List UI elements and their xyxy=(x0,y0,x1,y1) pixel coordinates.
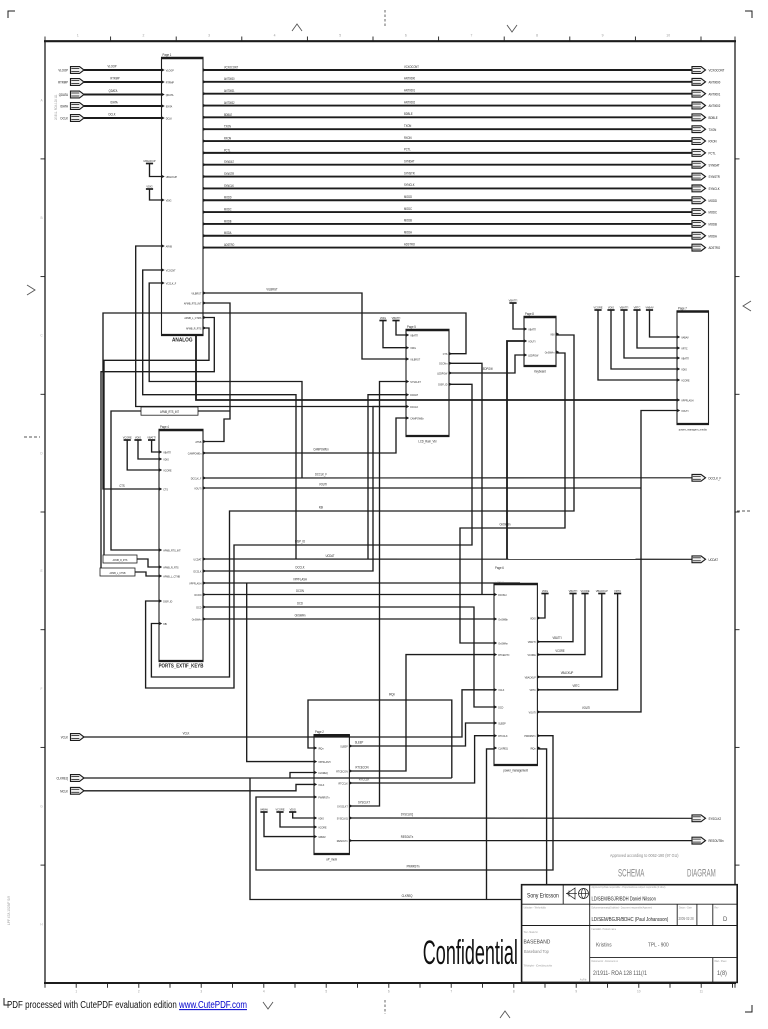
wire UCDAT out xyxy=(203,558,692,560)
wire VLOOP input xyxy=(84,69,162,71)
svg-text:10: 10 xyxy=(666,34,670,38)
svg-text:LD/SEM/BGJR/BDH Daniel Nilsson: LD/SEM/BGJR/BDH Daniel Nilsson xyxy=(592,896,657,903)
svg-text:KBI: KBI xyxy=(319,505,323,509)
svg-text:SYNCLK: SYNCLK xyxy=(224,183,234,187)
svg-text:DCD: DCD xyxy=(196,605,201,609)
svg-text:Page 2: Page 2 xyxy=(315,730,324,734)
power symbol P_VDIG_lcd xyxy=(379,316,386,321)
wire MODD bus line xyxy=(203,199,692,201)
wire VCXOCONT bus line xyxy=(203,69,692,71)
svg-text:5: 5 xyxy=(325,990,327,994)
svg-text:VCORE: VCORE xyxy=(580,589,589,593)
svg-text:UCDAT: UCDAT xyxy=(326,554,335,558)
svg-text:8: 8 xyxy=(513,990,515,994)
hierarchical block U2 uP_mem (Page 2) xyxy=(314,730,353,862)
svg-text:PWRRSTn: PWRRSTn xyxy=(318,795,330,799)
svg-text:DCCLK: DCCLK xyxy=(193,569,201,573)
svg-text:TXON: TXON xyxy=(709,127,717,131)
svg-text:Dokumentnr - Document no: Dokumentnr - Document no xyxy=(592,960,619,963)
svg-text:UBACKUP: UBACKUP xyxy=(143,159,155,163)
net label box AFMB_L_CTNB xyxy=(100,568,135,576)
net name SYSCLKT xyxy=(358,800,370,804)
wire VPPFLASH to uP xyxy=(247,583,314,762)
svg-text:VDIG: VDIG xyxy=(530,616,536,620)
hierarchical block U7 power_managem_media (Page 7) xyxy=(677,306,710,432)
svg-text:ArcFile: ArcFile xyxy=(580,978,587,981)
wire DCCLK_F out xyxy=(203,477,692,479)
svg-text:VABAV: VABAV xyxy=(260,807,268,811)
svg-text:MODD: MODD xyxy=(404,195,412,199)
svg-text:AFMB_RTS_INT: AFMB_RTS_INT xyxy=(160,410,179,414)
svg-text:Page 5: Page 5 xyxy=(407,325,416,329)
svg-text:TXON: TXON xyxy=(224,124,231,128)
svg-text:IDATA: IDATA xyxy=(110,100,117,104)
port connector VCLK xyxy=(61,734,84,741)
svg-text:DCD: DCD xyxy=(297,601,303,605)
svg-text:VILBRGT: VILBRGT xyxy=(266,287,277,291)
svg-text:6: 6 xyxy=(388,990,390,994)
svg-text:Titel - Made for: Titel - Made for xyxy=(524,931,539,934)
svg-text:VOUTI: VOUTI xyxy=(681,409,688,413)
svg-text:MODB: MODB xyxy=(709,222,717,226)
svg-text:VDIG: VDIG xyxy=(608,305,614,309)
svg-text:VCORE: VCORE xyxy=(593,305,602,309)
hierarchical block U8 Keyboard (Page 8) xyxy=(524,312,560,374)
svg-text:Kristins: Kristins xyxy=(596,942,612,948)
wire IDATA input xyxy=(84,105,162,107)
port connector TXON xyxy=(692,126,717,133)
svg-text:MODC: MODC xyxy=(224,207,232,211)
svg-text:VRTC: VRTC xyxy=(614,589,621,593)
svg-text:VCLK: VCLK xyxy=(498,688,504,692)
svg-text:SYSCLKT: SYSCLKT xyxy=(410,380,421,384)
svg-text:IRQn: IRQn xyxy=(389,692,395,696)
svg-text:2/1911- ROA 128 111(/1: 2/1911- ROA 128 111(/1 xyxy=(593,971,647,977)
svg-text:VBATTI: VBATTI xyxy=(410,333,418,337)
svg-text:MCLK: MCLK xyxy=(60,789,69,793)
wire RTRMP input xyxy=(84,81,162,83)
wire VOUTI vertical xyxy=(537,411,677,712)
svg-text:9: 9 xyxy=(602,34,604,38)
power symbol P_VDIG_ana xyxy=(146,184,153,189)
wire CAMPOWEn xyxy=(203,418,406,453)
net name VOUTI xyxy=(319,482,327,486)
svg-text:Page 1: Page 1 xyxy=(163,53,172,57)
svg-text:CAMPOWEn: CAMPOWEn xyxy=(313,447,329,451)
wire VCORE p7 feed xyxy=(598,310,677,380)
wire RESOUTn out xyxy=(349,840,692,842)
svg-text:1(8): 1(8) xyxy=(717,971,727,977)
svg-text:VPPFLASH: VPPFLASH xyxy=(681,398,693,402)
power symbol P_VBATTI_p7 xyxy=(620,305,629,310)
svg-text:power_management: power_management xyxy=(503,768,528,772)
svg-text:Sony Ericsson: Sony Ericsson xyxy=(527,893,559,900)
svg-text:PWRRSTn: PWRRSTn xyxy=(524,734,536,738)
wire RTCCLK net xyxy=(349,736,494,783)
svg-text:VCORE: VCORE xyxy=(318,825,326,829)
svg-text:PDF processed with CutePDF eva: PDF processed with CutePDF evaluation ed… xyxy=(7,999,247,1010)
svg-text:3: 3 xyxy=(200,990,202,994)
svg-text:KBI: KBI xyxy=(163,622,167,626)
wire VCORE ports feed xyxy=(127,440,159,470)
port connector SYNDAT xyxy=(692,161,720,168)
svg-text:DCLK: DCLK xyxy=(61,116,69,120)
port connector MCLK xyxy=(60,787,84,794)
svg-text:VABAV: VABAV xyxy=(645,305,653,309)
power symbol P_VCORE_p6 xyxy=(580,589,589,594)
svg-text:B: B xyxy=(40,216,42,220)
port connector MODD xyxy=(692,197,718,204)
wire VBACKUP p6 feed xyxy=(537,594,601,677)
port connector IDATA xyxy=(60,103,84,110)
wire VRTC p6 feed xyxy=(537,594,617,690)
svg-text:OnSWAn: OnSWAn xyxy=(545,350,555,354)
power symbol P_VDIG_p6 xyxy=(541,589,548,594)
svg-text:DCONd: DCONd xyxy=(498,593,507,597)
power symbol P_VRTC_p6 xyxy=(614,589,621,594)
wire BDBLE bus line xyxy=(203,116,692,118)
svg-text:SYNCLK: SYNCLK xyxy=(404,183,415,187)
svg-text:RTCCLK: RTCCLK xyxy=(498,734,507,738)
svg-text:CAMPOWEn: CAMPOWEn xyxy=(188,451,202,455)
CutePDF footer text xyxy=(7,999,247,1010)
svg-text:SYNDAT: SYNDAT xyxy=(709,163,720,167)
svg-text:SYSCLKT: SYSCLKT xyxy=(358,800,370,804)
wire CLKREQ pin jog xyxy=(290,773,314,779)
svg-text:VCLK: VCLK xyxy=(318,782,324,786)
power symbol P_VCORE_p7 xyxy=(593,305,602,310)
wire VBATTI p6 feed xyxy=(537,594,573,642)
svg-text:Page 7: Page 7 xyxy=(678,306,687,310)
wire TXON bus line xyxy=(203,128,692,130)
svg-text:RXON: RXON xyxy=(709,139,718,143)
svg-text:7: 7 xyxy=(450,990,452,994)
svg-text:VLOOP: VLOOP xyxy=(107,64,116,68)
wire ANT0000 bus line xyxy=(203,81,692,83)
port connector SYSCLK2 xyxy=(692,815,721,822)
svg-text:SCHEMA: SCHEMA xyxy=(618,866,644,878)
port connector MODA xyxy=(692,232,718,239)
wire VPPFLASH to page7 xyxy=(196,335,677,400)
svg-text:4: 4 xyxy=(263,990,265,994)
svg-text:OnSWBn: OnSWBn xyxy=(498,617,508,621)
svg-text:BASEBAND: BASEBAND xyxy=(524,939,551,945)
svg-text:SYSCLKQ: SYSCLKQ xyxy=(337,816,348,820)
svg-text:SYNSTR: SYNSTR xyxy=(224,172,234,176)
svg-text:ANT0002: ANT0002 xyxy=(404,100,415,104)
power symbol P_VCORE_ports xyxy=(123,435,132,440)
svg-text:AFMB_RTS_INT: AFMB_RTS_INT xyxy=(184,301,202,305)
svg-text:CLKREQ: CLKREQ xyxy=(498,746,508,750)
svg-text:QDATA: QDATA xyxy=(109,89,118,93)
DIAGRAM heading xyxy=(687,866,716,878)
svg-text:RTCCLK: RTCCLK xyxy=(359,777,369,781)
svg-text:RTRMP: RTRMP xyxy=(166,80,174,84)
net name RESOUTn xyxy=(401,835,414,839)
svg-text:ANT0001: ANT0001 xyxy=(709,92,721,96)
svg-text:OnSWAn: OnSWAn xyxy=(498,641,508,645)
svg-text:MODB: MODB xyxy=(404,218,412,222)
svg-text:VDIG: VDIG xyxy=(135,435,141,439)
svg-text:ANT0000: ANT0000 xyxy=(224,77,235,81)
svg-text:VOUTI: VOUTI xyxy=(319,482,327,486)
svg-text:DISP_ID: DISP_ID xyxy=(295,539,305,543)
Page 6 header label xyxy=(494,566,512,582)
svg-text:AFMB_R_RTS: AFMB_R_RTS xyxy=(186,326,202,330)
net name DCLK xyxy=(109,112,116,116)
svg-text:CAMPOWEn: CAMPOWEn xyxy=(410,416,424,420)
svg-text:Datum - Date: Datum - Date xyxy=(679,906,692,909)
wire SYSCLKQ out xyxy=(349,817,692,819)
wire VCORE p6 feed xyxy=(537,594,585,655)
wire VPPFLASH mid xyxy=(203,582,520,584)
wire VILBRGT xyxy=(203,293,406,359)
svg-text:Page 8: Page 8 xyxy=(525,312,534,316)
wire AFMB_L_CTMS xyxy=(101,318,214,573)
port connector DCCLK_F xyxy=(692,474,721,481)
svg-text:AFMB_R_RTS: AFMB_R_RTS xyxy=(163,565,179,569)
svg-text:VCORE: VCORE xyxy=(275,807,284,811)
svg-text:Approved by/Date responsible -: Approved by/Date responsible - Propertie… xyxy=(592,886,666,889)
svg-text:RESOUTn: RESOUTn xyxy=(337,839,348,843)
net name VCXOCONT xyxy=(404,64,419,68)
svg-text:8: 8 xyxy=(536,34,538,38)
power symbol P_VBATTI_p6 xyxy=(569,589,578,594)
svg-text:2005-02-28: 2005-02-28 xyxy=(679,915,695,921)
svg-text:DCCLK: DCCLK xyxy=(410,405,418,409)
svg-text:9: 9 xyxy=(575,990,577,994)
svg-text:VOUTI: VOUTI xyxy=(529,710,536,714)
svg-text:CTS: CTS xyxy=(119,484,124,488)
net name MODA xyxy=(404,230,412,234)
svg-text:VDIG: VDIG xyxy=(410,346,416,350)
svg-text:RTCECTN: RTCECTN xyxy=(498,653,509,657)
port connector SYNSTR xyxy=(692,173,720,180)
wire SYNCLK bus line xyxy=(203,187,692,189)
hierarchical block U5 LCD (Page 5) xyxy=(406,325,453,444)
wire AFMB_R_RTS stub xyxy=(137,559,159,567)
svg-text:MODA: MODA xyxy=(404,230,412,234)
wire DCLK input xyxy=(84,117,162,119)
net name DCON xyxy=(296,589,304,593)
svg-text:QDATA: QDATA xyxy=(59,93,69,97)
wire DCD net xyxy=(203,607,494,707)
port connector SYNCLK xyxy=(692,185,720,192)
net name VBATTI xyxy=(553,636,562,640)
net name VLOOP xyxy=(107,64,116,68)
net name MODC xyxy=(404,207,413,211)
svg-text:11: 11 xyxy=(700,990,704,994)
svg-text:VBACKUP: VBACKUP xyxy=(561,671,574,675)
svg-text:MODB: MODB xyxy=(224,219,232,223)
svg-text:QDATA: QDATA xyxy=(166,93,174,97)
svg-text:VBATTI: VBATTI xyxy=(392,316,401,320)
net name OnSWAn xyxy=(295,613,306,617)
wire VOUTI kbd drop xyxy=(507,341,524,559)
svg-text:VILBRGT: VILBRGT xyxy=(191,291,201,295)
svg-text:Approved according to 0062-190: Approved according to 0062-190 (97 GU) xyxy=(610,853,679,858)
svg-text:Baseband Top: Baseband Top xyxy=(524,949,549,954)
svg-text:DIAGRAM: DIAGRAM xyxy=(687,866,716,878)
svg-text:VCORE: VCORE xyxy=(123,435,132,439)
svg-text:LEDPOW: LEDPOW xyxy=(437,371,448,375)
net name MODB xyxy=(404,218,412,222)
svg-text:ANT0001: ANT0001 xyxy=(404,88,415,92)
wire KBI net xyxy=(151,335,574,677)
wire SYNSTR bus line xyxy=(203,176,692,178)
wire PWRRSTn net xyxy=(256,736,553,870)
svg-text:DCON: DCON xyxy=(296,589,304,593)
power symbol P_VABAV_p7 xyxy=(645,305,653,310)
svg-text:VBACKUP: VBACKUP xyxy=(596,589,608,593)
svg-text:AFMB_L_CTNB: AFMB_L_CTNB xyxy=(163,574,180,578)
wire AFMB_RTS_INT upper xyxy=(203,303,230,442)
svg-text:1: 1 xyxy=(75,990,77,994)
svg-text:1: 1 xyxy=(77,34,79,38)
wire VABAV up feed xyxy=(264,812,314,837)
svg-text:UBACKUP: UBACKUP xyxy=(166,175,177,179)
svg-text:2: 2 xyxy=(142,34,144,38)
wire VCOCNT xyxy=(143,270,296,559)
svg-text:MODC: MODC xyxy=(404,207,413,211)
port connector BDBLE xyxy=(692,114,718,121)
wire AFMB_L_CTNB stub xyxy=(135,572,159,576)
svg-text:E: E xyxy=(40,569,42,573)
wire AFMB_R_RTS xyxy=(104,328,209,555)
net name RTCECON xyxy=(356,765,369,769)
net name SYNCLK xyxy=(404,183,415,187)
svg-text:VABAV: VABAV xyxy=(318,835,326,839)
port connector CLKREQ xyxy=(57,775,84,782)
title block texts xyxy=(524,886,729,982)
port connector VLOOP xyxy=(58,67,84,74)
wire DCON net xyxy=(203,594,494,596)
svg-text:OnSWBn: OnSWBn xyxy=(500,522,511,526)
Confidential watermark xyxy=(423,933,518,972)
svg-text:DISP_ID: DISP_ID xyxy=(438,382,447,386)
svg-text:D: D xyxy=(723,917,728,923)
net label box AFMB_RTS_INT xyxy=(141,407,198,415)
svg-text:F: F xyxy=(41,687,43,691)
svg-text:MODA: MODA xyxy=(224,231,232,235)
svg-text:VDIG: VDIG xyxy=(166,198,172,202)
svg-text:PWRRSTn: PWRRSTn xyxy=(407,864,420,868)
svg-text:VCORE: VCORE xyxy=(527,653,535,657)
svg-text:DISP_ID: DISP_ID xyxy=(163,599,172,603)
svg-text:SLEEP: SLEEP xyxy=(340,744,348,748)
svg-text:ADSTRO: ADSTRO xyxy=(709,246,721,250)
svg-text:VCXOCONT: VCXOCONT xyxy=(224,65,238,69)
svg-text:VCOCNT: VCOCNT xyxy=(166,268,176,272)
net name VBACKUP xyxy=(561,671,574,675)
net name RXON xyxy=(404,136,412,140)
wire SLEEP net xyxy=(349,723,494,746)
svg-text:VDIG: VDIG xyxy=(163,457,169,461)
net name DCCLK_F xyxy=(315,472,327,476)
svg-text:VLOOP: VLOOP xyxy=(58,68,68,72)
hierarchical block U1 ANALOG (Page 1) xyxy=(161,53,238,344)
svg-text:Keyboard: Keyboard xyxy=(534,369,546,373)
svg-text:ANT0002: ANT0002 xyxy=(224,101,235,105)
power symbol P_UBACKUP xyxy=(143,159,155,164)
svg-text:VCLK: VCLK xyxy=(61,735,69,739)
svg-text:DCLK: DCLK xyxy=(109,112,116,116)
wire CLKREQ branch xyxy=(250,749,547,900)
wire OnSWAn net xyxy=(203,618,494,620)
svg-text:RTCECON: RTCECON xyxy=(336,769,348,773)
net name DCCLK xyxy=(296,565,305,569)
net name TXON xyxy=(404,124,411,128)
svg-text:MODA: MODA xyxy=(709,234,718,238)
power symbol P_VDIG_ports xyxy=(134,435,141,440)
svg-text:2: 2 xyxy=(138,990,140,994)
svg-text:CTS: CTS xyxy=(163,487,168,491)
svg-text:VILBRGT: VILBRGT xyxy=(410,357,420,361)
svg-text:RTRMP: RTRMP xyxy=(58,80,68,84)
net name VRTC xyxy=(572,684,580,688)
wire VDIG p6 feed xyxy=(537,594,545,619)
wire VDIG up feed xyxy=(293,812,314,818)
wire CLKREQ page6 stub xyxy=(487,749,495,900)
svg-text:OnSWAn: OnSWAn xyxy=(192,617,202,621)
svg-text:AFMB_RTS_INT: AFMB_RTS_INT xyxy=(163,548,181,552)
net name VCLK xyxy=(183,731,190,735)
wire VRTC p7 feed xyxy=(637,310,677,348)
svg-text:RTRMP: RTRMP xyxy=(110,76,119,80)
svg-text:SYSCLKQ: SYSCLKQ xyxy=(401,812,414,816)
svg-text:LEDPOW: LEDPOW xyxy=(481,367,493,371)
svg-text:7: 7 xyxy=(470,34,472,38)
wire CLKREQ conn xyxy=(84,777,452,779)
svg-text:VRTC: VRTC xyxy=(634,305,641,309)
power symbol P_VDIG_up xyxy=(289,807,296,812)
svg-text:ANT0002: ANT0002 xyxy=(709,104,721,108)
net name CAMPOWEn xyxy=(313,447,329,451)
svg-text:VBACKUP: VBACKUP xyxy=(525,675,536,679)
power symbol P_VCORE_up xyxy=(275,807,284,812)
svg-text:CLKREQ: CLKREQ xyxy=(57,776,69,780)
svg-text:Page 4: Page 4 xyxy=(160,425,169,429)
svg-text:5: 5 xyxy=(339,34,341,38)
wire DCDAT feeder xyxy=(368,395,406,560)
wire SYNDAT bus line xyxy=(203,164,692,166)
port connector UCDAT xyxy=(692,556,718,563)
svg-text:SYSCLKT: SYSCLKT xyxy=(337,804,348,808)
svg-text:DCD: DCD xyxy=(498,705,503,709)
wire VCLK net xyxy=(84,690,494,737)
svg-text:VOUTI: VOUTI xyxy=(194,486,201,490)
svg-text:RESOUTBn: RESOUTBn xyxy=(709,839,724,843)
svg-text:VBATTI: VBATTI xyxy=(147,435,156,439)
svg-text:VBATTI: VBATTI xyxy=(553,636,562,640)
svg-text:BDBLE: BDBLE xyxy=(404,112,413,116)
wire QDATA input xyxy=(84,94,162,96)
svg-text:LCD_Ram_Vbr: LCD_Ram_Vbr xyxy=(418,439,436,443)
net name VCORE xyxy=(555,649,564,653)
SCHEMA heading xyxy=(618,866,644,878)
wire AFMB_RTS_INT lower xyxy=(111,411,159,550)
port connector ADSTRO xyxy=(692,244,721,251)
wire VBATTI kbd feed xyxy=(513,303,524,329)
svg-text:VBATTI: VBATTI xyxy=(163,450,171,454)
svg-text:Utfärdare - Telefonkälla: Utfärdare - Telefonkälla xyxy=(524,906,547,909)
svg-text:Dokumentansvarig/Godkänd - Doc: Dokumentansvarig/Godkänd - Document resp… xyxy=(592,906,653,909)
svg-text:RTCECON: RTCECON xyxy=(356,765,369,769)
svg-text:VPPFLASH: VPPFLASH xyxy=(189,581,201,585)
svg-text:MODC: MODC xyxy=(709,210,718,214)
net name PCTL xyxy=(404,147,411,151)
wire VDIG ports feed xyxy=(138,440,159,459)
